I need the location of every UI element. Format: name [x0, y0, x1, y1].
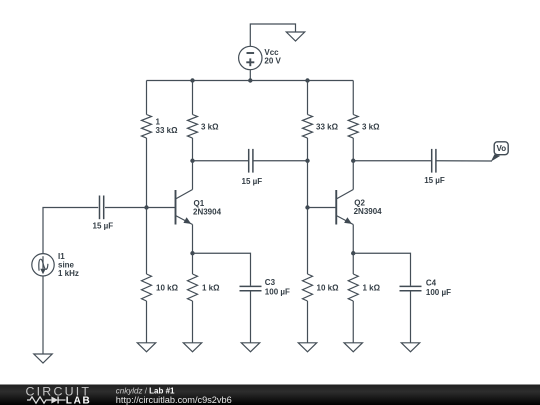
wire rail to R5 [307, 81, 309, 115]
svg-text:3 kΩ: 3 kΩ [362, 123, 380, 132]
wire C5 to output flag [437, 160, 493, 162]
wire collector node to Q1 [192, 161, 194, 190]
wire top supply rail [147, 80, 354, 82]
svg-text:1 kΩ: 1 kΩ [363, 284, 381, 293]
node Vcc rail junction [248, 78, 252, 82]
wire I1 top to input line [43, 208, 98, 254]
wire R4 to ground [192, 301, 194, 343]
wire rail corner to R6 [352, 81, 354, 115]
svg-text:Vo: Vo [497, 144, 507, 153]
wire base node to R7 [307, 208, 309, 275]
wire R6 to collector node Q2 [352, 138, 354, 161]
capacitor C1 15 uF input [93, 196, 114, 231]
wire coupling node to base node Q2 [307, 161, 309, 208]
svg-text:3 kΩ: 3 kΩ [201, 123, 219, 132]
ground below R8 [344, 343, 362, 352]
current source I1 sine 1 kHz [32, 252, 79, 278]
wire Vcc bottom to rail [249, 70, 251, 81]
capacitor C5 15 uF output [424, 149, 445, 185]
resistor R3 10 kOhm [142, 274, 179, 301]
wire rail to R2 [192, 81, 194, 115]
svg-text:C4: C4 [426, 279, 437, 288]
wire C4 to ground [410, 291, 412, 342]
capacitor C4 100 uF [400, 279, 452, 298]
ground below I1 [34, 354, 52, 363]
svg-text:100 µF: 100 µF [426, 288, 451, 297]
svg-text:http://circuitlab.com/c9s2vb6: http://circuitlab.com/c9s2vb6 [116, 395, 232, 405]
wire R1 to base node [146, 138, 148, 208]
node rail R2 junction [190, 78, 194, 82]
svg-text:C3: C3 [265, 278, 276, 287]
voltage source Vcc 20 V [239, 46, 282, 69]
wire collector node Q2 to C5 [353, 160, 431, 162]
resistor R7 10 kOhm [303, 274, 340, 301]
transistor Q2 2N3904 [336, 190, 382, 225]
ground below C4 [401, 343, 419, 352]
wire Vcc top to ground [250, 24, 295, 46]
wire I1 bottom to ground [42, 276, 44, 354]
wire Q1 emitter to node [192, 225, 194, 254]
wire R2 to collector node [192, 138, 194, 161]
wire C1 to base node [105, 207, 147, 209]
wire C2 to divider node [254, 160, 308, 162]
wire emitter node to R4 [192, 253, 194, 274]
svg-text:2N3904: 2N3904 [354, 207, 383, 216]
node rail R5 junction [305, 78, 309, 82]
svg-text:33 kΩ: 33 kΩ [316, 123, 339, 132]
node coupling junction Q2 [305, 159, 309, 163]
capacitor C2 15 uF coupling [242, 149, 263, 186]
node collector Q2 [351, 159, 355, 163]
wire Q1 base [147, 207, 176, 209]
wire emitter node to C3 [193, 253, 251, 286]
resistor R8 1 kOhm [348, 274, 380, 301]
svg-text:LAB: LAB [66, 396, 92, 405]
capacitor C3 100 uF [240, 278, 290, 297]
wire C3 to ground [250, 291, 252, 342]
svg-text:10 kΩ: 10 kΩ [156, 284, 179, 293]
resistor R6 3 kOhm [348, 115, 380, 139]
wire R3 to ground [146, 301, 148, 343]
wire emitter node to R8 [352, 253, 354, 274]
ground top right [286, 32, 304, 41]
svg-text:15 µF: 15 µF [242, 177, 263, 186]
node collector Q1 [190, 159, 194, 163]
svg-text:15 µF: 15 µF [93, 221, 114, 230]
ground below R4 [183, 343, 201, 352]
resistor R2 3 kOhm [188, 115, 220, 139]
wire Q2 base [308, 207, 337, 209]
svg-text:10 kΩ: 10 kΩ [317, 284, 340, 293]
svg-text:20 V: 20 V [264, 57, 281, 66]
wire R7 to ground [307, 301, 309, 343]
resistor R4 1 kOhm [188, 274, 221, 301]
wire Q2 emitter to node [352, 225, 354, 254]
svg-text:100 µF: 100 µF [265, 288, 290, 297]
svg-text:15 µF: 15 µF [424, 176, 445, 185]
transistor Q1 2N3904 [176, 190, 222, 225]
wire collector node to Q2 [352, 161, 354, 190]
node base divider junction Q1 [144, 205, 148, 209]
wire emitter node Q2 to C4 [353, 253, 410, 286]
node emitter Q1 [190, 251, 194, 255]
node base divider junction Q2 [305, 205, 309, 209]
node Vo output flag [491, 142, 508, 162]
resistor R1 33 kOhm [142, 115, 179, 139]
svg-text:2N3904: 2N3904 [193, 208, 222, 217]
ground below R3 [137, 343, 155, 352]
svg-text:1 kHz: 1 kHz [58, 269, 79, 278]
resistor R5 33 kOhm [303, 115, 339, 139]
wire collector node to C2 [193, 160, 249, 162]
svg-text:Q2: Q2 [354, 199, 365, 208]
wire rail to R1 [146, 81, 148, 115]
svg-text:33 kΩ: 33 kΩ [156, 126, 179, 135]
wire R8 to ground [352, 301, 354, 343]
wire R5 to coupling node [307, 138, 309, 161]
ground below C3 [241, 343, 259, 352]
footer bar [0, 385, 540, 405]
svg-text:1 kΩ: 1 kΩ [202, 284, 220, 293]
wire base node to R3 [146, 208, 148, 275]
node emitter Q2 [351, 251, 355, 255]
ground below R7 [298, 343, 316, 352]
